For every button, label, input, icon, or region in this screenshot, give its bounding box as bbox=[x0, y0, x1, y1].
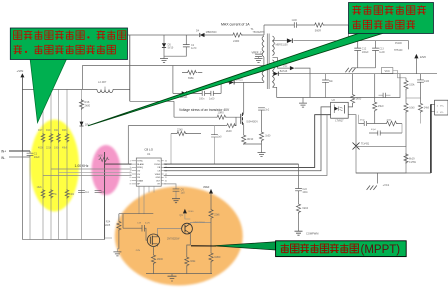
wire vertical x=171 down to IC net bbox=[170, 134, 172, 165]
ground below zener bbox=[160, 59, 168, 63]
diode D4 MBR0540 (points left) bbox=[200, 33, 205, 37]
resistor R5 24R in top rail bbox=[232, 33, 243, 37]
svg-text:PGND: PGND bbox=[154, 164, 161, 166]
hanging stub with +VC1 and chassis ground bbox=[377, 173, 379, 184]
MOSFET Q4 small (circle) bbox=[147, 234, 159, 246]
svg-text:TLV431: TLV431 bbox=[361, 142, 370, 145]
highlight ellipse pink (feedback divider area) bbox=[92, 145, 121, 195]
svg-text:5V00: 5V00 bbox=[188, 211, 194, 213]
wire cap bottom return to zener ground bbox=[164, 47, 186, 56]
power flag VREF arrow bbox=[209, 189, 213, 194]
svg-text:COMPWM: COMPWM bbox=[306, 232, 318, 236]
wire long horizontal y=65.5 bbox=[82, 65, 264, 67]
resistor 1k50 bbox=[259, 131, 263, 142]
wire sense bottom bbox=[244, 143, 262, 145]
svg-text:VREF: VREF bbox=[155, 174, 161, 176]
svg-text:60n: 60n bbox=[329, 80, 334, 83]
svg-text:FREQ: FREQ bbox=[137, 167, 143, 169]
svg-text:Voltage stress of an transisto: Voltage stress of an transistor 40V bbox=[179, 108, 230, 112]
svg-text:R19: R19 bbox=[46, 129, 51, 132]
svg-text:332k: 332k bbox=[190, 260, 196, 263]
svg-text:GND: GND bbox=[156, 177, 161, 179]
callout tail (left, triangle) bbox=[30, 58, 67, 123]
svg-text:1u0: 1u0 bbox=[181, 192, 186, 195]
transformer primary upper winding bbox=[262, 36, 264, 57]
callout tail (MPPT wedge) bbox=[213, 242, 276, 250]
transformer secondary lower winding bbox=[273, 60, 275, 88]
capacitor C2 4u7 bbox=[183, 45, 190, 47]
wire Q4 source down bbox=[153, 246, 155, 254]
svg-text:C8 LG: C8 LG bbox=[144, 148, 153, 152]
power flag +VIN arrow bbox=[20, 73, 24, 77]
wire IC down x=139 bbox=[138, 186, 140, 214]
output connector J1 bbox=[435, 100, 448, 115]
svg-text:LTV817: LTV817 bbox=[335, 120, 344, 123]
wire left box vertical x=82.4 bbox=[81, 66, 83, 90]
capacitor C19 horizontal bbox=[123, 228, 147, 240]
svg-text:470p: 470p bbox=[360, 120, 366, 122]
wire zener to ground bbox=[163, 48, 165, 59]
output cap C13 1u00 bbox=[375, 41, 377, 68]
TL431 shunt regulator X symbol bbox=[353, 143, 360, 150]
svg-text:5V10: 5V10 bbox=[168, 47, 174, 50]
IC left pin stubs bbox=[132, 161, 137, 184]
svg-text:4u70: 4u70 bbox=[145, 222, 151, 224]
svg-text:BLANK: BLANK bbox=[137, 163, 144, 166]
wire primary bottom y=82.4 bbox=[221, 81, 264, 83]
svg-text:R17: R17 bbox=[38, 129, 43, 132]
wire ladder vertical x=58.5 bbox=[58, 89, 60, 239]
wire box top y=213.7 bbox=[119, 213, 153, 215]
svg-text:22k6: 22k6 bbox=[214, 213, 220, 216]
wire Q4 drain to Q1 base rail bbox=[158, 228, 182, 234]
wire y=125.6 bbox=[128, 125, 236, 127]
svg-text:ZVN: ZVN bbox=[136, 250, 141, 252]
svg-text:0.25W: 0.25W bbox=[409, 161, 417, 164]
svg-text:150k: 150k bbox=[409, 83, 415, 86]
text line 2: 比和开关频率 bbox=[353, 20, 361, 29]
clamp resistor 698k bbox=[182, 72, 202, 74]
wire VIN vertical (dark upper part) bbox=[21, 77, 23, 151]
clamp diode BAS21 bbox=[182, 91, 187, 95]
wire IC down x=144 bbox=[143, 186, 145, 214]
wire jog from VCC label to divider bbox=[393, 71, 406, 78]
wire IN- vertical to bottom bus bbox=[29, 157, 31, 240]
svg-text:Si3440DV: Si3440DV bbox=[246, 120, 258, 124]
capacitor 60n on bias rail bbox=[325, 74, 327, 98]
wire VIN vertical lower to bottom bus bbox=[21, 151, 23, 240]
IC pin numbers bbox=[130, 161, 132, 186]
svg-text:VO-: VO- bbox=[440, 112, 444, 114]
wire dark vertical x=104.6 bbox=[104, 152, 106, 240]
svg-text:6k04: 6k04 bbox=[302, 206, 308, 210]
svg-text:U1: U1 bbox=[147, 152, 151, 156]
transformer secondary upper winding bbox=[273, 36, 275, 56]
wire IC left pin run y=169 bbox=[51, 168, 132, 170]
wire cap return y=67.8 bbox=[352, 67, 376, 69]
COMPWM chain x=298.5 : capacitor bbox=[298, 164, 300, 203]
svg-text:698k: 698k bbox=[188, 76, 194, 80]
text: 最大峰值功率追踪 bbox=[281, 244, 359, 253]
svg-text:750342879: 750342879 bbox=[253, 31, 266, 34]
resistor lower ladder x=43 bbox=[41, 189, 45, 199]
svg-text:R21: R21 bbox=[54, 129, 59, 132]
svg-text:R16: R16 bbox=[85, 100, 90, 104]
svg-text:MAX current of 1A: MAX current of 1A bbox=[221, 22, 250, 26]
svg-text:VREF: VREF bbox=[203, 186, 210, 189]
wire ladder vertical x=51 bbox=[50, 89, 52, 239]
callout box top-right (adjustable max duty cycle text) bbox=[349, 3, 434, 34]
resistor lower ladder x=51 bbox=[49, 189, 53, 199]
wire vertical x=174 bbox=[173, 101, 175, 117]
opto LED bbox=[334, 107, 338, 111]
bias rail y=73.7 with diode BAS16 bbox=[273, 73, 438, 75]
IC right pin stubs bbox=[161, 161, 164, 184]
resistor 15k0 from rail bbox=[374, 74, 376, 124]
power flag small bias arrow bbox=[183, 209, 187, 214]
snubber vertical from transformer top bbox=[263, 25, 265, 35]
svg-text:24k9: 24k9 bbox=[424, 106, 430, 109]
svg-text:10k0: 10k0 bbox=[409, 106, 415, 109]
svg-text:1n00: 1n00 bbox=[424, 80, 430, 83]
wire stubs IC bottom bbox=[149, 186, 154, 192]
wire stub from dark vertical bbox=[105, 237, 112, 239]
svg-text:0u1: 0u1 bbox=[85, 191, 90, 194]
wire dark vertical x=129.8 from top rail down bbox=[129, 35, 131, 101]
svg-text:OUT: OUT bbox=[156, 180, 161, 182]
bottom bus orange area bbox=[146, 273, 212, 275]
RC chain x=261.5 : capacitor 2n2 bbox=[261, 108, 263, 131]
svg-text:49k9: 49k9 bbox=[62, 147, 68, 150]
wire vertical x=128.3 bbox=[127, 126, 129, 165]
comp wire y=123.5 with cap 470p and resistor 200k bbox=[359, 123, 403, 125]
wire ladder vertical x=81.5 bbox=[81, 89, 83, 239]
snubber right vertical bbox=[347, 25, 349, 41]
wire opto bottom right to TL431 bbox=[348, 115, 356, 147]
resistor lower ladder x=67 bbox=[65, 189, 69, 199]
ground COMPWM bbox=[295, 231, 303, 235]
svg-text:6k19: 6k19 bbox=[409, 156, 415, 160]
clamp box left vertical x=172.9 bbox=[172, 66, 174, 94]
ground below VREF cap bbox=[258, 57, 260, 59]
wire vertical x=402 bbox=[401, 124, 403, 134]
wire ladder vertical x=67 bbox=[66, 89, 68, 239]
IC U1 controller body bbox=[136, 158, 161, 186]
thick return wire right side bbox=[430, 104, 432, 173]
diode BAV21 inline bbox=[229, 80, 234, 84]
transistor Q1 (circle) bbox=[182, 223, 193, 234]
svg-text:(MPPT): (MPPT) bbox=[361, 244, 401, 256]
chassis ground output bbox=[345, 68, 355, 72]
resistor small in pink ellipse bbox=[99, 157, 110, 161]
snubber resistor 560R bbox=[314, 23, 325, 27]
ground below C6 bbox=[172, 199, 180, 203]
wire gate y=117.2 bbox=[174, 116, 241, 118]
net label box VCC bbox=[381, 68, 393, 74]
wire IC right y=167.4 to opto loop bbox=[164, 115, 331, 168]
svg-text:24R0: 24R0 bbox=[233, 39, 240, 43]
opto coupler U3 bbox=[331, 102, 349, 118]
capacitor branch x=214.5 bbox=[214, 126, 216, 165]
svg-text:1n0: 1n0 bbox=[218, 135, 223, 138]
svg-text:100n: 100n bbox=[302, 191, 308, 194]
wire secondary bottom y=97.5 bbox=[273, 74, 401, 98]
svg-text:221k: 221k bbox=[46, 147, 52, 150]
svg-text:IN+: IN+ bbox=[1, 150, 6, 154]
cap pair on bias rail y=91.8 bbox=[379, 94, 391, 96]
svg-text:SYNC: SYNC bbox=[137, 161, 143, 163]
svg-text:12V0: 12V0 bbox=[420, 55, 427, 59]
svg-text:C1: C1 bbox=[34, 152, 38, 156]
text line 2: 定、固定频率电压模式 bbox=[14, 45, 22, 54]
wire top rail y=35 bbox=[128, 34, 264, 36]
svg-text:+VC1: +VC1 bbox=[383, 183, 390, 187]
svg-text:2k05: 2k05 bbox=[105, 224, 111, 227]
resistor R24 2k05 bbox=[118, 214, 120, 249]
svg-text:4u70: 4u70 bbox=[191, 47, 197, 50]
wire IC right y=170.7 to opto loop 2 bbox=[164, 107, 331, 171]
svg-text:162k: 162k bbox=[37, 186, 43, 189]
output rectifier diode D11 MBRS1100 bbox=[273, 40, 409, 42]
svg-text:1.00 KHz: 1.00 KHz bbox=[75, 164, 89, 168]
divider junction wire bbox=[406, 97, 421, 99]
clamp box right vertical bbox=[220, 82, 222, 93]
divider resistor 10k0 bbox=[404, 102, 408, 113]
capacitor C6 bbox=[173, 189, 180, 191]
wire to ground bbox=[298, 213, 300, 231]
svg-text:15k0: 15k0 bbox=[378, 104, 384, 108]
wire Q1 emitter down to resistor bbox=[187, 234, 191, 257]
snubber rail y=25 bbox=[264, 24, 348, 26]
wire IC left pin run y=175.5 bbox=[43, 175, 132, 177]
wire Q1 collector up bbox=[190, 223, 211, 224]
zener diode D5 5V1 bbox=[162, 43, 166, 47]
highlight ellipse yellow (UVLO/OVLO divider area) bbox=[30, 120, 79, 212]
svg-text:100n: 100n bbox=[199, 97, 205, 100]
ground stub on y=97.5 bbox=[302, 98, 304, 103]
resistor 1M00 under Q4 bbox=[151, 254, 155, 265]
wire IC right y=175.5 outer loop bbox=[164, 115, 327, 176]
wire output corner down bbox=[408, 41, 410, 50]
wire source to sense resistor bbox=[243, 125, 245, 134]
capacitor C1 input bbox=[29, 151, 31, 157]
IC pin names left bbox=[137, 161, 144, 186]
svg-text:10uF: 10uF bbox=[34, 155, 40, 159]
svg-text:402k: 402k bbox=[38, 147, 44, 150]
text line 1: 可调节最大占空 bbox=[353, 5, 361, 14]
wire bottom bus y=239.5 bbox=[22, 239, 104, 241]
svg-text:1k00: 1k00 bbox=[98, 154, 104, 157]
callout box left (programmable OVLO/UVLO text) bbox=[10, 28, 127, 60]
divider resistor 150k bbox=[405, 78, 407, 147]
resistor 1M00 right bbox=[209, 252, 213, 263]
svg-text:R23: R23 bbox=[62, 129, 67, 132]
svg-text:1u00: 1u00 bbox=[209, 97, 215, 100]
svg-text:2k00: 2k00 bbox=[85, 103, 91, 107]
transformer core lines bbox=[267, 34, 269, 90]
svg-text:1M00: 1M00 bbox=[157, 258, 164, 261]
svg-text:BAS16: BAS16 bbox=[280, 70, 288, 73]
svg-text:1k50: 1k50 bbox=[265, 135, 271, 138]
svg-text:2k00: 2k00 bbox=[226, 129, 232, 133]
resistor 22k6 bbox=[209, 209, 213, 220]
TL431 box bottom wire bbox=[356, 172, 431, 174]
svg-text:PGND: PGND bbox=[395, 42, 402, 45]
resistor R23 upper ladder bbox=[65, 133, 69, 143]
svg-text:22k0: 22k0 bbox=[177, 128, 183, 132]
resistor 24k9 on x=420.5 bbox=[418, 102, 422, 113]
svg-text:VC: VC bbox=[157, 161, 160, 163]
capacitor on x=98 lower (pink area) bbox=[95, 190, 102, 192]
wire cap branch x=186.3 bbox=[185, 35, 187, 45]
ground below sense chain bbox=[258, 153, 266, 157]
IC pin names right bbox=[154, 161, 161, 186]
resistor 332k bbox=[185, 256, 189, 267]
wire gate drive y=101.3 bbox=[130, 100, 174, 102]
node/wire zener branch x=164 bbox=[163, 35, 165, 43]
svg-text:MBRS1100: MBRS1100 bbox=[276, 44, 289, 47]
resistor R17 upper ladder bbox=[41, 133, 45, 143]
wire IC bottom branch to cap x=176 bbox=[164, 184, 176, 199]
clamp capacitor 2 plates bbox=[211, 91, 213, 96]
resistor R sense 0R10 bbox=[242, 134, 246, 145]
resistor 22k horizontal with cap branch bbox=[171, 133, 201, 135]
wire IC left pin run y=164.5 (dark) bbox=[105, 163, 132, 165]
ground bottom center bbox=[171, 274, 173, 276]
highlight ellipse orange (MPPT circuit area) bbox=[115, 187, 243, 286]
svg-text:IN-: IN- bbox=[1, 156, 5, 160]
text line 1: 可编程过压锁定、欠压锁 bbox=[14, 31, 22, 40]
wire primary bottom stub bbox=[263, 57, 265, 82]
cap 1n00 on x=420.5 bbox=[420, 74, 422, 103]
svg-text:1k00: 1k00 bbox=[356, 97, 362, 101]
resistor gate 10R bbox=[216, 115, 227, 119]
wire IN+ stub bbox=[9, 150, 30, 152]
wire ladder vertical x=43 bbox=[42, 89, 44, 239]
svg-text:2N7002DW: 2N7002DW bbox=[167, 237, 180, 240]
transformer primary lower winding bbox=[262, 66, 264, 82]
resistor R16 on x=81.5 bbox=[79, 99, 83, 110]
clamp box bottom wire y=93.4 with diode and caps bbox=[173, 92, 221, 94]
svg-text:L2 4R7: L2 4R7 bbox=[98, 80, 107, 84]
callout tail (top-right, long wedge) bbox=[88, 33, 383, 126]
svg-text:47p0: 47p0 bbox=[371, 129, 377, 131]
svg-text:TP5100: TP5100 bbox=[394, 49, 403, 52]
wire vertical x=358.5 linking opto wire bbox=[358, 115, 360, 124]
svg-text:VCC: VCC bbox=[384, 69, 390, 73]
resistor R19 upper ladder bbox=[49, 133, 53, 143]
svg-text:24k9: 24k9 bbox=[69, 193, 75, 196]
output cap C12 100uF bbox=[357, 41, 359, 68]
connector stubs bbox=[431, 104, 435, 111]
comp wire y=133 with cap 47p bbox=[369, 132, 402, 134]
svg-text:1M00: 1M00 bbox=[214, 256, 221, 259]
svg-text:1u00: 1u00 bbox=[379, 51, 385, 54]
svg-text:0R10: 0R10 bbox=[247, 137, 254, 141]
wire IN- stub bbox=[9, 156, 30, 158]
callout tail (MPPT, black tip line) bbox=[191, 245, 216, 247]
TL431 box bbox=[356, 147, 406, 174]
wire to ground x=261.5 bbox=[261, 141, 263, 152]
svg-text:DMAX: DMAX bbox=[137, 179, 144, 182]
zener diode D7 on x=81.5 bbox=[80, 122, 84, 126]
callout box MPPT bbox=[276, 241, 407, 257]
svg-text:MBR0540: MBR0540 bbox=[206, 31, 217, 34]
ground below R24 bbox=[113, 252, 121, 256]
svg-text:560R: 560R bbox=[315, 28, 321, 32]
MOSFET Q2 main switch bbox=[243, 82, 245, 113]
svg-text:+VIN: +VIN bbox=[17, 69, 24, 73]
wire IC left pin run y=172.3 bbox=[59, 171, 132, 173]
svg-text:100k: 100k bbox=[54, 147, 60, 150]
resistor 6k04 bbox=[296, 203, 300, 214]
power flag 12V output arrow bbox=[415, 58, 417, 73]
capacitor on x=81.5 lower bbox=[78, 190, 85, 192]
wire IC right y=164.1 dark long bbox=[164, 163, 299, 165]
snubber capacitor 1n00 bbox=[294, 22, 296, 28]
wire top bus y=89.4 bbox=[22, 88, 129, 90]
resistor R21 upper ladder bbox=[57, 133, 61, 143]
svg-text:2n2: 2n2 bbox=[265, 109, 270, 112]
capacitor VREF bypass bbox=[258, 53, 260, 55]
wire vertical x=236 join gate bbox=[235, 117, 237, 125]
svg-text:1n00: 1n00 bbox=[292, 19, 298, 22]
resistor 2k00 inline bbox=[226, 124, 237, 128]
inductor L1 bead coil on bus bbox=[97, 89, 113, 92]
resistor 6k19 on box right edge bbox=[404, 153, 408, 164]
clamp capacitor plates bbox=[202, 91, 204, 96]
svg-text:100uF: 100uF bbox=[362, 51, 369, 54]
aux winding mid stub and diode bbox=[273, 58, 311, 98]
resistor 1k00 feeding opto from VCC rail bbox=[348, 74, 352, 107]
